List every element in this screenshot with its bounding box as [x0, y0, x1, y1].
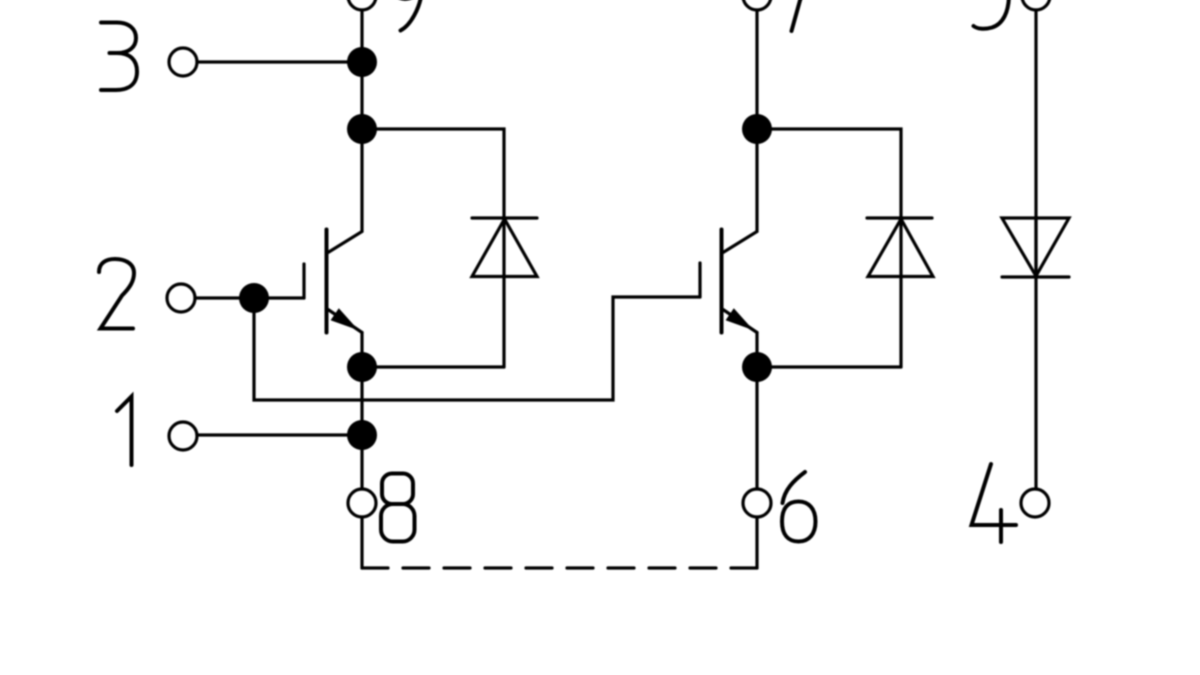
wire terminal 5 stem to diode D3 [1034, 10, 1037, 277]
wire dashed link terminal 8 to terminal 6 [362, 566, 757, 569]
wire node C1b to diode D1 cathode [362, 129, 504, 277]
wire terminal 1 to node E1b [197, 433, 362, 436]
junction gate node G1 [239, 283, 269, 313]
wire terminal 8 to dashed link [360, 517, 363, 568]
terminal 6 [743, 489, 771, 517]
terminal 3 [169, 48, 197, 76]
pin label 1 [117, 397, 132, 466]
wire node E2 to diode D2 anode [757, 365, 901, 368]
terminal 2 [167, 284, 195, 312]
diode D3 [1002, 218, 1069, 277]
pin label 3 [101, 23, 137, 91]
wire diode D1 anode lead [502, 277, 505, 367]
wire node E1b to terminal 8 [360, 435, 363, 489]
wire diode D2 anode lead [899, 277, 902, 367]
wire node E1 to diode D1 anode [362, 365, 504, 368]
wire auxiliary gate node to gate Q2 [254, 297, 700, 400]
wire collector Q1 [328, 129, 362, 253]
wire diode D3 to terminal 4 [1034, 218, 1037, 489]
junction node E2 [742, 352, 772, 382]
terminal 7 [743, 0, 771, 10]
wire terminal 9 stem [360, 10, 363, 62]
pin label 8 [381, 474, 415, 542]
junction node C1 [347, 47, 377, 77]
wire node E1 to node E1b [360, 367, 363, 435]
pin label 9 [391, 0, 422, 31]
terminal 5 [1022, 0, 1050, 10]
wire collector Q2 [723, 129, 757, 253]
wire node E2 to terminal 6 [755, 367, 758, 489]
terminal 4 [1021, 489, 1049, 517]
junction node C1b [347, 114, 377, 144]
pin label 6 [782, 472, 816, 542]
pin label 2 [99, 259, 134, 329]
wire node C1 to node C1b [360, 62, 363, 129]
wire node C2 to diode D2 cathode [757, 129, 901, 277]
wire terminal 3 to node C1 [197, 60, 362, 63]
wire terminal 2 to gate node [195, 296, 254, 299]
diode D1 [472, 218, 537, 277]
wire emitter Q2 to node E2 [755, 333, 758, 368]
wire emitter Q1 to node E1 [360, 333, 363, 368]
pin label 4 [972, 464, 1017, 542]
terminal 9 [348, 0, 376, 10]
transistor Q1 [304, 230, 362, 333]
transistor Q2 [700, 230, 757, 333]
wire gate node to gate Q1 [254, 296, 304, 299]
wire terminal 6 to dashed link [755, 517, 758, 568]
junction node E1b [347, 420, 377, 450]
pin label 5 [974, 0, 1010, 29]
pin label 7 [792, 0, 805, 31]
wire terminal 7 stem to node C2 [755, 10, 758, 129]
terminal 1 [169, 422, 197, 450]
junction node E1 [347, 352, 377, 382]
diode D2 [867, 218, 933, 277]
terminal 8 [348, 489, 376, 517]
junction node C2 [742, 114, 772, 144]
